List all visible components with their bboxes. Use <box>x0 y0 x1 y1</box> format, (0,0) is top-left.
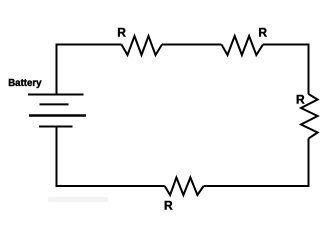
battery plate short <box>40 103 69 105</box>
battery plate short bottom <box>39 126 73 128</box>
resistor R1 <box>122 36 163 55</box>
resistor R4 <box>165 178 204 196</box>
svg-text:Battery: Battery <box>8 78 42 89</box>
svg-text:R: R <box>258 26 267 40</box>
resistor R3 <box>301 94 318 139</box>
resistor R2 <box>222 36 264 55</box>
wire top-left segment <box>57 45 122 95</box>
svg-text:R: R <box>117 26 126 40</box>
battery plate long middle <box>29 114 86 117</box>
faint watermark smudge <box>48 197 108 202</box>
wire top-middle segment <box>162 44 222 46</box>
svg-text:R: R <box>296 92 305 106</box>
battery B1 <box>28 95 86 127</box>
wire top-right and right upper segment <box>263 45 309 95</box>
wire right lower and bottom-right segment <box>204 139 309 187</box>
battery plate long top <box>28 94 84 96</box>
svg-text:R: R <box>164 198 173 212</box>
wire bottom-left segment <box>57 127 165 187</box>
